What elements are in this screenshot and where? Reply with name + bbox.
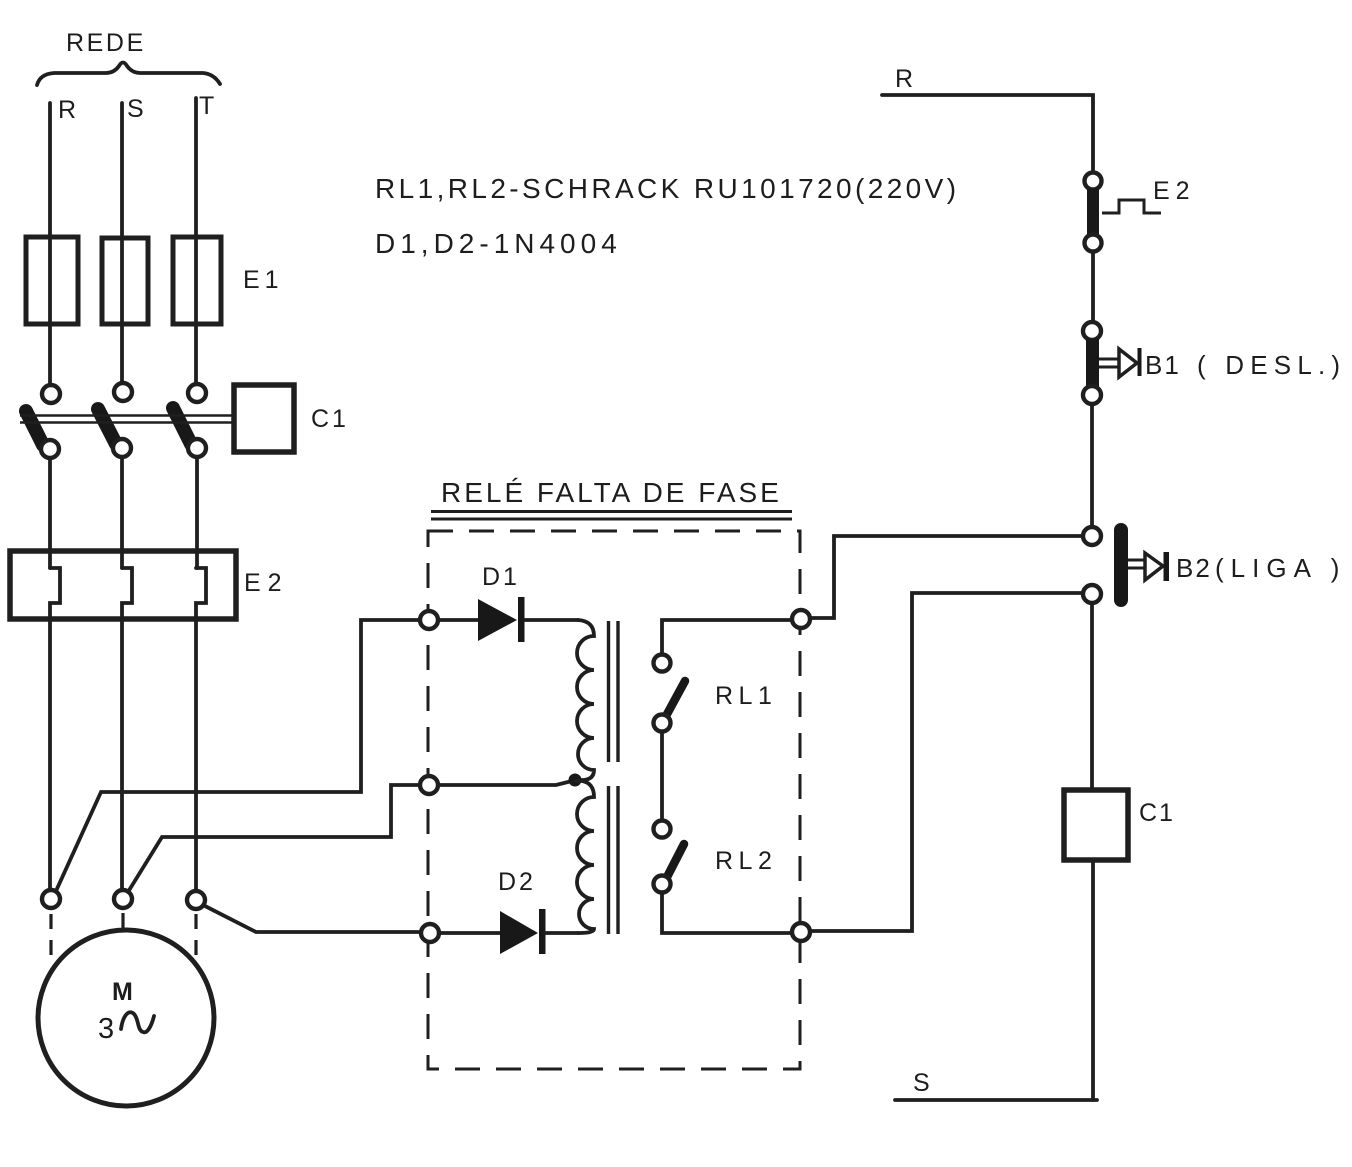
contact RL1	[654, 655, 671, 672]
pushbutton B1 (NC)	[1083, 322, 1101, 340]
overload E2 element T	[196, 568, 206, 619]
contact RL2	[654, 821, 671, 838]
wire C1 to S rail	[1091, 860, 1095, 1100]
svg-text:E2: E2	[244, 569, 289, 597]
switch C1 pole S bottom contact	[113, 439, 131, 457]
svg-text:R: R	[895, 65, 913, 93]
wire D2 anode	[439, 931, 500, 935]
brace REDE	[37, 63, 220, 86]
dashed lead T to motor	[194, 914, 197, 960]
svg-text:RL1,RL2-SCHRACK RU101720(220V: RL1,RL2-SCHRACK RU101720(220V)	[375, 173, 959, 204]
wire R to overload	[48, 458, 52, 568]
wire relay output top to B2	[810, 536, 1083, 618]
node relay output top	[792, 610, 810, 628]
motor terminal R	[42, 890, 60, 908]
core upper	[609, 621, 619, 762]
wire relay output bottom to B2	[810, 593, 1083, 931]
linkage bar to C1	[20, 416, 234, 423]
motor terminal T	[187, 891, 205, 909]
switch C1 pole T top contact	[188, 384, 206, 402]
wire E2 to B1	[1091, 252, 1095, 322]
fuse E1 phase R	[26, 237, 78, 324]
node coil junction input	[420, 776, 438, 794]
svg-text:RL1: RL1	[715, 682, 777, 710]
junction dot	[569, 774, 582, 787]
svg-text:(LIGA ): (LIGA )	[1215, 553, 1346, 583]
motor M circle	[38, 930, 214, 1106]
svg-text:RELÉ FALTA DE FASE: RELÉ FALTA DE FASE	[441, 477, 782, 508]
switch C1 pole T blade	[173, 408, 191, 444]
wire B2 to C1 coil	[1090, 604, 1094, 790]
svg-text:REDE: REDE	[66, 29, 146, 57]
switch C1 pole S top contact	[114, 383, 132, 401]
coil L2 (lower winding)	[576, 781, 594, 933]
node D2 input	[421, 924, 439, 942]
svg-text:E1: E1	[243, 266, 284, 294]
wire S to overload	[120, 457, 124, 568]
B2 actuator	[1128, 560, 1145, 568]
dashed lead S to motor	[121, 913, 124, 929]
svg-text:C1: C1	[1139, 799, 1175, 827]
core lower	[609, 786, 619, 934]
wire D2 cathode to coil	[545, 931, 578, 935]
wire S phase to relay box	[128, 785, 420, 892]
wire B1 to B2	[1090, 404, 1094, 527]
svg-text:RL2: RL2	[715, 847, 777, 875]
contactor C1 box	[234, 385, 294, 452]
wire S input to junction dot	[438, 781, 572, 785]
wire T phase to relay box	[203, 905, 421, 932]
dashed lead R to motor	[49, 914, 52, 959]
wire S rail	[895, 1098, 1097, 1102]
wire phase T top	[194, 98, 198, 384]
wire phase R top	[48, 103, 52, 385]
wire RL2 bottom to output node	[662, 893, 792, 933]
node relay output bottom	[792, 923, 810, 941]
svg-text:D1: D1	[482, 563, 520, 591]
overload relay E2 box	[10, 551, 236, 619]
svg-text:D2: D2	[498, 868, 536, 896]
E2 step symbol	[1102, 200, 1161, 213]
coil L1 (upper winding)	[576, 620, 594, 780]
switch C1 pole R top contact	[42, 385, 60, 403]
svg-text:D1,D2-1N4004: D1,D2-1N4004	[375, 228, 622, 259]
wire S to motor terminal	[120, 619, 124, 890]
motor terminal S	[114, 890, 132, 908]
svg-text:B1: B1	[1145, 350, 1181, 380]
svg-text:C1: C1	[311, 405, 349, 433]
diode D1	[478, 599, 517, 641]
svg-text:( DESL.): ( DESL.)	[1197, 350, 1346, 380]
switch C1 pole S blade	[98, 409, 116, 444]
dashed enclosure relay box	[428, 531, 800, 1069]
svg-text:E2: E2	[1153, 177, 1196, 205]
fuse E1 phase S	[102, 238, 148, 324]
wire D1 cathode to coil	[525, 618, 578, 622]
wire R rail top	[882, 95, 1093, 172]
svg-text:R: R	[58, 96, 76, 124]
svg-text:M: M	[112, 978, 133, 1006]
diode D2	[500, 911, 538, 954]
contactor coil C1	[1064, 790, 1128, 860]
title underline	[431, 512, 792, 520]
wire phase S top	[120, 103, 124, 384]
wire T to motor terminal	[194, 619, 198, 891]
motor sine symbol	[121, 1012, 154, 1032]
switch C1 pole R bottom contact	[41, 440, 59, 458]
contact E2 (right rail)	[1085, 173, 1102, 190]
overload E2 element S	[122, 568, 132, 619]
svg-text:3: 3	[98, 1013, 114, 1045]
svg-text:S: S	[127, 95, 144, 123]
switch C1 pole T bottom contact	[188, 439, 206, 457]
svg-text:T: T	[199, 92, 214, 120]
wire D1 anode	[438, 618, 478, 622]
wire RL1 to RL2	[660, 732, 664, 820]
B1 actuator	[1099, 359, 1119, 367]
svg-text:S: S	[913, 1069, 930, 1097]
wire RL1 top to output node	[662, 620, 792, 654]
wire R to motor terminal	[48, 619, 52, 890]
pushbutton B2 (NO)	[1083, 527, 1101, 545]
fuse E1 phase T	[173, 237, 221, 324]
overload E2 element R	[50, 568, 60, 619]
wire R phase to relay box	[56, 620, 420, 891]
svg-text:B2: B2	[1176, 553, 1212, 583]
node D1 input	[420, 611, 438, 629]
wire T to overload	[195, 457, 199, 568]
switch C1 pole R blade	[26, 411, 43, 445]
